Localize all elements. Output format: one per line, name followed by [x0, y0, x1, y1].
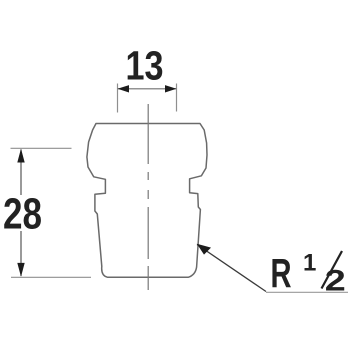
fitting body outline	[87, 124, 207, 278]
dim 13: left arrow	[118, 85, 130, 92]
dim 28: bottom arrow	[17, 263, 24, 277]
leader line for R 1/2	[197, 245, 266, 292]
leader arrowhead	[197, 244, 211, 255]
R 1/2 text: fraction slash	[322, 251, 343, 289]
dim 13: extension line left	[117, 84, 119, 113]
dim 28: bottom extension line	[11, 276, 91, 278]
leader underline	[266, 291, 348, 293]
center line (dash-dot)	[147, 104, 149, 291]
dim 28: dimension line upper segment	[20, 150, 22, 196]
svg-text:28: 28	[3, 190, 42, 239]
svg-text:13: 13	[126, 43, 164, 89]
svg-text:1: 1	[303, 250, 316, 277]
dim 28: dimension line lower segment	[20, 231, 22, 276]
dim 13: dimension line	[118, 88, 176, 90]
svg-text:2: 2	[325, 265, 346, 298]
svg-text:R: R	[271, 250, 292, 296]
dim 28: top extension line	[11, 147, 72, 149]
dim 13: right arrow	[165, 85, 177, 92]
dim 13: extension line right	[176, 84, 178, 112]
dim 28: top arrow	[17, 149, 24, 163]
